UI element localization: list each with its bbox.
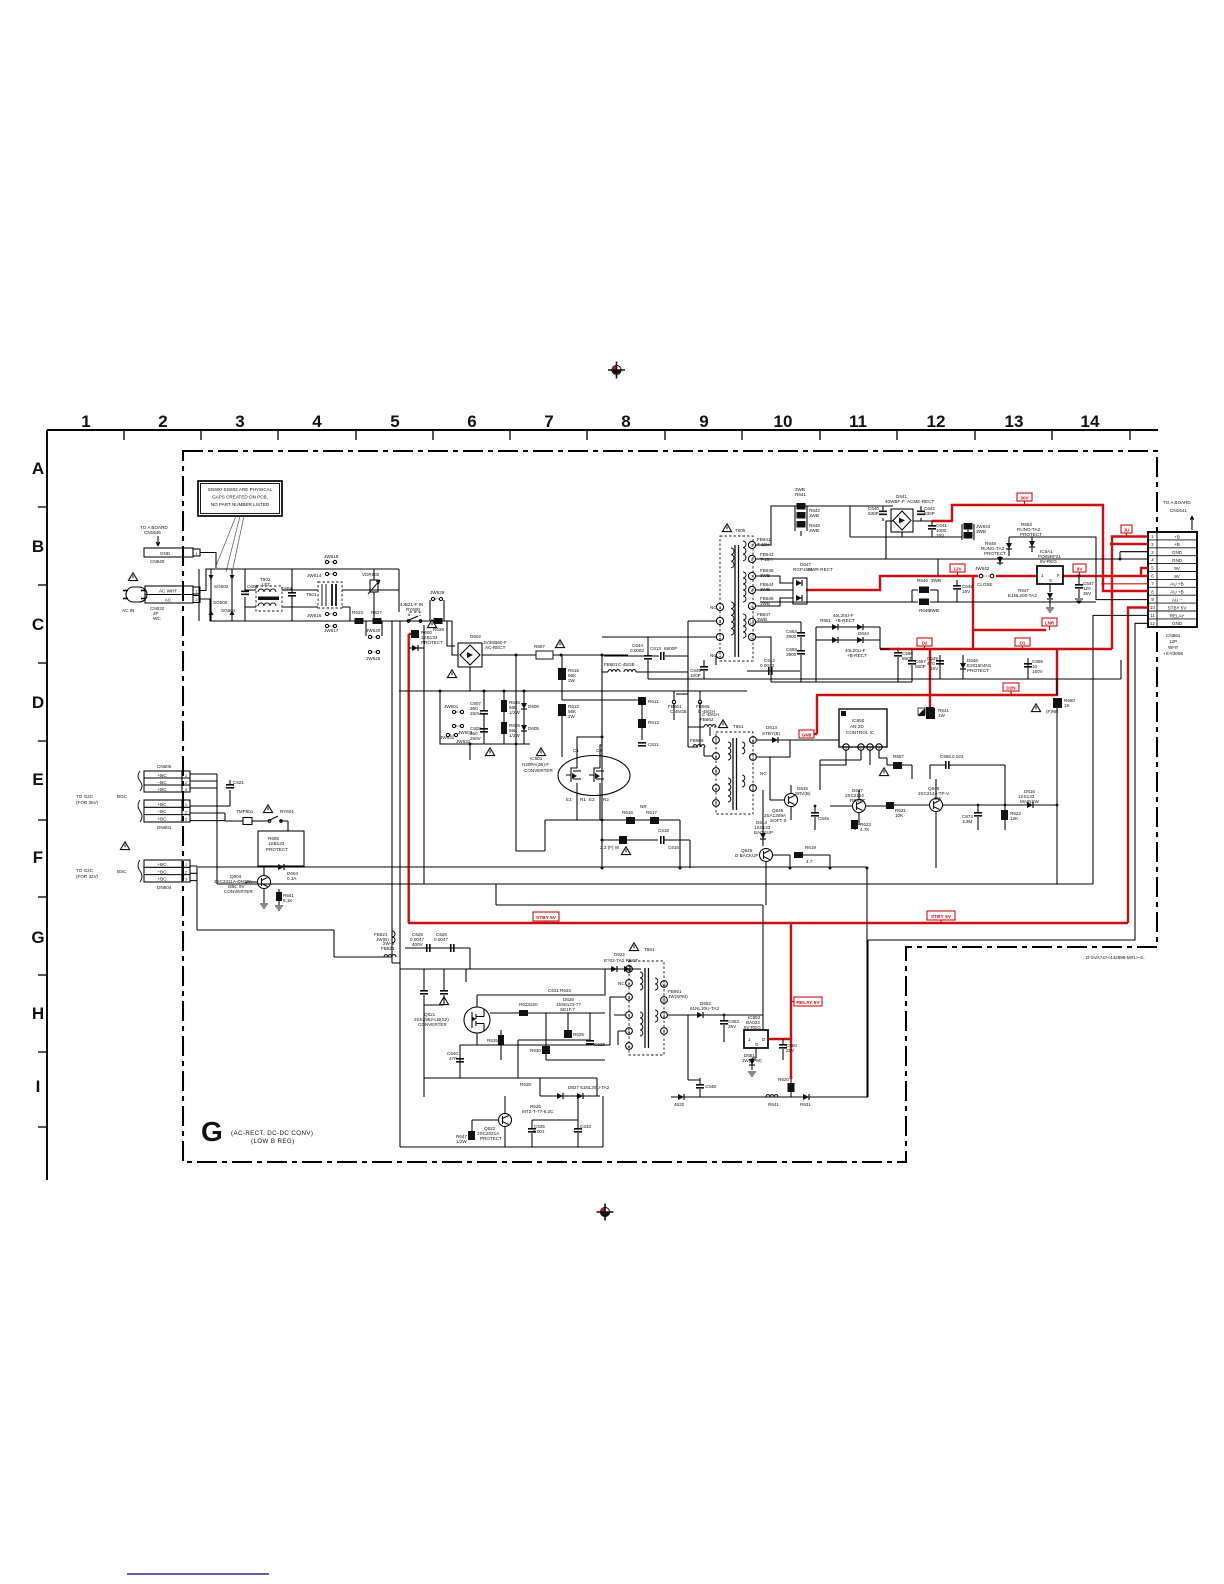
svg-text:7: 7 (752, 756, 754, 760)
capacitor C612 (747, 658, 800, 675)
svg-text:GND: GND (1172, 550, 1183, 555)
diode bottom R631 (800, 1094, 811, 1107)
svg-text:4.7K: 4.7K (860, 827, 870, 832)
red label RELAY 5V (791, 997, 822, 1006)
svg-text:C-45GB: C-45GB (670, 709, 687, 714)
svg-text:14: 14 (1081, 412, 1100, 431)
svg-text:CONVERTER: CONVERTER (524, 768, 553, 773)
registration mark top (608, 362, 625, 379)
svg-text:JW631: JW631 (440, 735, 455, 740)
wire: IC pins down (820, 750, 887, 790)
svg-text:2: 2 (158, 412, 167, 431)
bridge rectifier D602 (447, 634, 507, 678)
capacitor C604 (281, 569, 296, 621)
svg-text:10: 10 (750, 621, 754, 625)
red label D1 (1015, 638, 1030, 649)
svg-text:1: 1 (845, 746, 847, 750)
wire red: 9V sub drop (972, 576, 974, 649)
resistor R623b (851, 820, 871, 832)
svg-text:G: G (755, 1042, 759, 1047)
svg-text:GND: GND (160, 551, 171, 556)
diode D647 dual (756, 562, 833, 606)
svg-text:13: 13 (1005, 412, 1024, 431)
svg-text:1/2W: 1/2W (509, 710, 520, 715)
diode D616 backup (754, 790, 773, 846)
svg-text:220: 220 (530, 1002, 538, 1007)
bottom rail converter (400, 1096, 603, 1147)
svg-text:S: S (1049, 578, 1052, 583)
svg-text:11: 11 (750, 636, 754, 640)
svg-text:1/2W: 1/2W (456, 1139, 467, 1144)
red label 9V (1073, 564, 1086, 576)
svg-text:R625: R625 (573, 1032, 584, 1037)
T651 right pins (661, 981, 668, 1035)
svg-text:2W-B: 2W-B (383, 941, 394, 946)
svg-text:E2: E2 (589, 797, 595, 802)
sub rail (424, 1005, 597, 1097)
svg-text:R1: R1 (580, 797, 586, 802)
T603 right pins (750, 737, 768, 792)
svg-text:5.1K: 5.1K (283, 898, 293, 903)
capacitor C649 (927, 656, 944, 671)
wire: bus 905 (496, 884, 763, 1032)
svg-text:2: 2 (185, 780, 188, 785)
wire: bus AU- 868 (198, 867, 867, 1097)
svg-text:D602: D602 (470, 634, 481, 639)
svg-text:IC650: IC650 (852, 718, 865, 723)
cap C635 (528, 1120, 545, 1147)
resistor R633 (490, 1002, 546, 1016)
diode bottom d632 (674, 1094, 685, 1107)
svg-text:25V: 25V (786, 1048, 795, 1053)
cap C675 (962, 804, 982, 830)
svg-text:R2: R2 (603, 797, 609, 802)
svg-text:47P: 47P (449, 1056, 457, 1061)
svg-text:+B-RECT: +B-RECT (835, 618, 855, 623)
red label STBY 5V right (927, 911, 955, 923)
border frame: top rule (47, 430, 1158, 1180)
svg-text:JW615: JW615 (324, 554, 339, 559)
svg-text:1: 1 (715, 739, 717, 743)
svg-text:R641: R641 (795, 492, 806, 497)
jumper JW629 (430, 590, 445, 621)
svg-text:(FOR 32V): (FOR 32V) (76, 874, 99, 879)
svg-text:8: 8 (752, 787, 754, 791)
svg-text:JW632: JW632 (456, 739, 471, 744)
svg-text:(LOW B REG): (LOW B REG) (251, 1138, 295, 1145)
svg-text:2: 2 (195, 597, 198, 602)
converter mid parts: resistors caps (518, 988, 605, 1078)
svg-text:R616: R616 (622, 810, 633, 815)
svg-text:PROTECT: PROTECT (266, 847, 288, 852)
svg-text:16V: 16V (962, 589, 971, 594)
capacitor C654 (756, 622, 805, 650)
T605 right pins (748, 541, 755, 640)
svg-text:4.7: 4.7 (806, 859, 813, 864)
resistor R616 gate (622, 810, 635, 824)
svg-text:D627 61NL20U-TA2: D627 61NL20U-TA2 (568, 1085, 610, 1090)
svg-text:TMP601: TMP601 (236, 809, 254, 814)
svg-text:H: H (32, 1004, 44, 1023)
svg-text:NR: NR (640, 804, 647, 809)
resistor R618 (600, 836, 658, 855)
svg-text:LNR: LNR (1045, 621, 1055, 626)
diode R647 (1008, 588, 1054, 612)
connector CN632 AC input (122, 573, 200, 621)
resistor R627 (371, 610, 382, 624)
svg-text:AC WHT: AC WHT (159, 589, 177, 594)
diode D652 (688, 1001, 763, 1018)
svg-text:2: 2 (628, 982, 630, 986)
svg-text:250V: 250V (470, 711, 482, 716)
svg-text:D-SVA747<442898-M#1>-S..: D-SVA747<442898-M#1>-S.. (1086, 955, 1146, 960)
capacitor C641 (928, 521, 947, 538)
svg-text:D BACKUP: D BACKUP (735, 853, 759, 858)
snubber stack right R643 (962, 523, 991, 540)
svg-text:8: 8 (751, 589, 753, 593)
svg-text:3WB: 3WB (931, 578, 941, 583)
svg-text:SG600: SG600 (213, 600, 228, 605)
cap C633 (574, 1095, 591, 1147)
svg-text:C: C (32, 615, 44, 634)
svg-text:100P: 100P (690, 673, 701, 678)
svg-text:D622: D622 (614, 952, 625, 957)
svg-text:STBY 5V: STBY 5V (931, 914, 952, 920)
svg-text:C-45GB: C-45GB (618, 662, 635, 667)
svg-text:2: 2 (860, 746, 862, 750)
svg-text:C616: C616 (668, 845, 679, 850)
svg-text:NC: NC (710, 605, 717, 610)
IC651 label (556, 997, 581, 1012)
wire red: relay 5V vertical (767, 923, 791, 1078)
svg-text:10: 10 (774, 412, 793, 431)
svg-text:R611: R611 (648, 699, 659, 704)
svg-text:T601: T601 (306, 592, 317, 597)
diode D651a (1006, 543, 1012, 549)
svg-text:E1NL200-TA2: E1NL200-TA2 (1008, 593, 1037, 598)
svg-text:AU −: AU − (1172, 598, 1183, 603)
svg-text:R641: R641 (768, 1102, 779, 1107)
wire: pin12 GND line (868, 623, 1148, 1097)
svg-text:C1: C1 (573, 748, 579, 753)
svg-text:−BC: −BC (157, 780, 167, 785)
junction dots buses (601, 867, 869, 870)
svg-text:SG601: SG601 (221, 608, 236, 613)
svg-text:R623: R623 (560, 988, 571, 993)
svg-text:C-45GH: C-45GH (702, 712, 719, 717)
svg-text:9V: 9V (1077, 567, 1084, 572)
schematic dash-dot boundary (183, 451, 1157, 1162)
jumper JW602 (452, 724, 472, 735)
svg-text:3: 3 (869, 746, 871, 750)
capacitor C608 (470, 726, 488, 741)
wire: converter top rail (400, 948, 641, 990)
capacitor C621 (226, 780, 244, 788)
diode D604 (278, 864, 298, 881)
regulator IC641 (1037, 549, 1063, 592)
transistor Q604 (214, 867, 271, 903)
svg-text:5: 5 (628, 1030, 630, 1034)
svg-text:CONVERTER: CONVERTER (418, 1022, 447, 1027)
capacitor C615 (690, 660, 708, 679)
svg-text:6800P: 6800P (664, 646, 677, 651)
svg-text:RELAY 5V: RELAY 5V (797, 1000, 821, 1006)
resistor R623 (352, 610, 364, 624)
fb bead labels T605 (757, 537, 774, 606)
svg-text:1: 1 (185, 862, 188, 867)
svg-text:JW625: JW625 (366, 656, 381, 661)
jumper JW615 (324, 554, 339, 564)
svg-text:+B: +B (1174, 542, 1180, 547)
svg-text:9: 9 (751, 605, 753, 609)
transistor Q648 (890, 779, 1005, 868)
red label D2 (917, 638, 932, 649)
svg-text:JW601: JW601 (444, 704, 459, 709)
svg-text:NC: NC (618, 981, 625, 986)
spark gap SG600 (209, 575, 229, 615)
svg-text:3WB: 3WB (976, 529, 986, 534)
svg-text:TO G2C: TO G2C (76, 794, 94, 799)
jumper JW625 (366, 650, 381, 661)
svg-text:SW: SW (934, 796, 942, 801)
resistor R645 (501, 700, 520, 715)
resistor R619 (794, 845, 830, 868)
svg-text:8: 8 (663, 1030, 665, 1034)
transistor Q646 backup (735, 848, 790, 885)
wire: q646 collector down (765, 885, 767, 905)
option icon near IC (918, 707, 934, 715)
svg-text:12: 12 (1150, 621, 1155, 626)
svg-text:E: E (32, 770, 43, 789)
resistor R613 (638, 700, 659, 740)
transformer T651 (629, 943, 664, 1055)
svg-text:R657: R657 (893, 754, 904, 759)
svg-text:VDR602: VDR602 (362, 572, 380, 577)
svg-text:3: 3 (185, 817, 188, 822)
transistor Q621 FET (464, 995, 490, 1045)
svg-text:R617: R617 (646, 810, 657, 815)
svg-text:1: 1 (1041, 573, 1044, 578)
capacitor C642 (902, 506, 935, 537)
svg-text:4: 4 (312, 412, 322, 431)
wire: T605 left pin connections (602, 621, 716, 694)
resistor R612 (558, 704, 579, 757)
svg-text:DN601: DN601 (157, 825, 172, 830)
svg-text:NO PART NUMBER LISTED: NO PART NUMBER LISTED (211, 502, 270, 507)
wire: rail verticals degauss (211, 569, 245, 621)
svg-text:G: G (31, 928, 44, 947)
resistor R617 gate (640, 804, 659, 824)
capacitor C613 series (604, 646, 688, 672)
wire: FET drains up (577, 727, 602, 757)
svg-text:AC: AC (165, 597, 172, 602)
cap C617 (658, 828, 690, 868)
svg-text:LFT: LFT (262, 582, 270, 587)
diode D622 (590, 952, 641, 972)
svg-text:JW620: JW620 (366, 628, 381, 633)
svg-text:RELAY: RELAY (1170, 613, 1185, 618)
note box (198, 481, 282, 572)
svg-text:3WB: 3WB (795, 487, 805, 492)
svg-text:C618: C618 (658, 828, 669, 833)
svg-text:STBY 5V: STBY 5V (536, 915, 557, 921)
svg-text:5: 5 (751, 544, 753, 548)
svg-text:A: A (32, 459, 44, 478)
svg-text:+BC: +BC (157, 802, 167, 807)
column ticks (124, 430, 1130, 440)
svg-text:D613: D613 (766, 725, 777, 730)
svg-text:C611: C611 (648, 742, 659, 747)
svg-text:R613: R613 (648, 720, 659, 725)
svg-text:2: 2 (715, 755, 717, 759)
resistor R620 tap (778, 1077, 795, 1097)
svg-text:AC-RECT: AC-RECT (485, 645, 506, 650)
transformer T601 (306, 582, 342, 608)
svg-text:400V: 400V (412, 942, 424, 947)
capacitor C647 (1075, 575, 1094, 604)
cap C653 (720, 1014, 739, 1042)
svg-text:FB662: FB662 (700, 717, 714, 722)
svg-text:GND: GND (1172, 621, 1183, 626)
jumper JW617 (324, 624, 339, 633)
svg-text:1W: 1W (938, 713, 946, 718)
line filter T602 (245, 577, 290, 611)
transformer T603 (716, 720, 753, 814)
svg-text:4632: 4632 (674, 1102, 685, 1107)
svg-text:7: 7 (751, 575, 753, 579)
wire red: 12V/9V line (806, 568, 1148, 590)
fb bead labels T605b (757, 582, 774, 622)
svg-text:AU +B: AU +B (1170, 582, 1183, 587)
fb bead FB621b (374, 931, 395, 943)
transistor Q-fet1 inside IC601 (566, 748, 586, 802)
svg-text:0.0047: 0.0047 (434, 937, 448, 942)
svg-text:C631: C631 (548, 988, 559, 993)
wire: bridge output (470, 655, 628, 691)
T603 left pins (713, 737, 720, 807)
svg-text:MTZ-T-77-6.2C: MTZ-T-77-6.2C (522, 1109, 554, 1114)
jumper JW620 (366, 621, 382, 639)
wire: T651 sec out (668, 1014, 688, 1016)
svg-text:+B-RECT: +B-RECT (847, 653, 867, 658)
svg-text:DN604: DN604 (157, 885, 172, 890)
wire: rails to T601 (290, 590, 318, 607)
capacitor C655b (1024, 659, 1044, 674)
svg-text:JU: JU (1124, 528, 1131, 533)
svg-text:I: I (36, 1077, 41, 1096)
wire: G2C links (190, 774, 230, 884)
protector R600 (411, 620, 443, 645)
svg-text:R667: R667 (534, 644, 545, 649)
svg-text:3WB: 3WB (757, 617, 767, 622)
svg-text:R627: R627 (371, 610, 382, 615)
svg-text:9V: 9V (1174, 566, 1181, 571)
svg-text:EWR-RECT: EWR-RECT (808, 567, 833, 572)
svg-text:25V: 25V (728, 1024, 737, 1029)
svg-text:6: 6 (467, 412, 476, 431)
svg-text:−BC: −BC (157, 869, 167, 874)
svg-text:3: 3 (185, 787, 188, 792)
svg-text:WC: WC (153, 616, 161, 621)
wire red: pin7 tap (1103, 583, 1148, 585)
wire: pin11 RELAY line (1093, 615, 1148, 884)
fusible resistor R667 (534, 640, 565, 659)
wire red: STBY 5V bus (408, 922, 1128, 924)
svg-text:0.0033: 0.0033 (760, 663, 774, 668)
resistor R635 (487, 1030, 504, 1060)
svg-text:R651: R651 (820, 618, 831, 623)
svg-text:JW629: JW629 (430, 590, 445, 595)
wire red: D2N branch (812, 649, 1057, 734)
op chip IC601 outline (522, 748, 630, 796)
svg-text:3WB: 3WB (809, 528, 819, 533)
capacitor C655 (771, 647, 816, 682)
svg-text:3.3M: 3.3M (962, 819, 972, 824)
svg-text:T651: T651 (733, 724, 744, 729)
wire: 602 gnd line (756, 602, 1096, 682)
cap C626 (424, 932, 448, 1005)
svg-text:PROTECT: PROTECT (480, 1136, 502, 1141)
svg-text:0.3A: 0.3A (287, 876, 297, 881)
svg-text:1: 1 (185, 773, 188, 778)
resistor bottom R641d (765, 1095, 779, 1107)
cap C625 (410, 932, 428, 1005)
svg-text:11: 11 (1150, 613, 1155, 618)
G board label (201, 1116, 313, 1147)
wire: T651 left links (477, 969, 625, 1045)
T651 left pins (618, 966, 632, 1050)
svg-text:630P: 630P (924, 511, 935, 516)
svg-text:11: 11 (849, 412, 867, 431)
wire red: pin10 STBY drop (1128, 608, 1148, 924)
resistor R626 (501, 691, 520, 744)
regulator IC652 (744, 1015, 768, 1058)
registration mark bottom (597, 1204, 614, 1221)
cap C652 (930, 754, 1005, 779)
svg-text:4: 4 (719, 606, 721, 610)
svg-text:10: 10 (1150, 605, 1155, 610)
thermal protector TMP601 (225, 805, 273, 825)
diode pair R627 (510, 1078, 540, 1087)
svg-text:7: 7 (544, 412, 553, 431)
rect diodes D644 top (816, 613, 880, 682)
svg-text:(FOR 35V): (FOR 35V) (76, 800, 99, 805)
svg-text:40WBF-F: 40WBF-F (885, 499, 905, 504)
svg-text:GND: GND (1172, 558, 1183, 563)
wire: AC rails (199, 569, 452, 621)
svg-text:RY601: RY601 (280, 809, 294, 814)
svg-text:+BC: +BC (157, 877, 167, 882)
junction dots main rail (439, 654, 604, 746)
svg-text:C2: C2 (596, 748, 602, 753)
resistor R611 (638, 697, 659, 705)
svg-text:C621: C621 (233, 780, 244, 785)
fb bead FB662 (688, 712, 719, 736)
svg-text:WHT: WHT (1168, 645, 1179, 650)
jumper JW631 JW632 (440, 733, 471, 744)
wire red: +B down to rect output (880, 544, 1112, 649)
svg-text:R635: R635 (487, 1038, 498, 1043)
svg-text:9: 9 (663, 1014, 665, 1018)
red label D2N (1003, 683, 1019, 695)
wire: T601 out rails (342, 590, 399, 621)
wire: into bridge (428, 621, 458, 655)
svg-text:AU +B: AU +B (1170, 590, 1183, 595)
svg-text:560P: 560P (915, 664, 926, 669)
svg-text:16V: 16V (930, 666, 939, 671)
svg-text:35V: 35V (1083, 591, 1092, 596)
cap C611 (638, 742, 659, 747)
